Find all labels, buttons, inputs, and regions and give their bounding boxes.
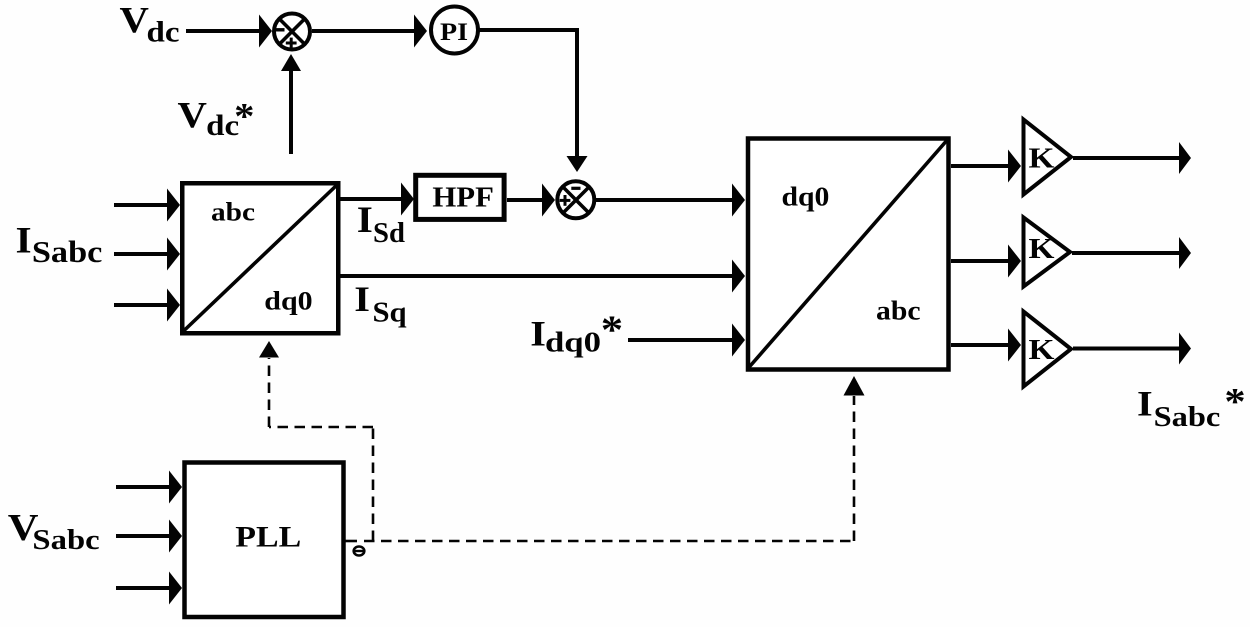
- label dq0 in B2: [782, 182, 830, 211]
- svg-text:V: V: [120, 0, 149, 41]
- transformation block B1 abc to dq0: [182, 183, 339, 333]
- node VSabc label: [8, 506, 100, 555]
- node Vdc* label: [178, 95, 255, 142]
- wire ISabc input c to B1: [114, 289, 180, 322]
- wire theta dashed branch up at x373: [372, 427, 375, 541]
- label dq0 in B1: [264, 287, 312, 316]
- svg-text:V: V: [178, 95, 207, 136]
- wire ISq from B1 to B2 input q: [340, 260, 745, 293]
- filter block HPF: [416, 175, 504, 219]
- wire S2 to B2 input d: [596, 184, 746, 217]
- svg-text:I: I: [357, 200, 373, 241]
- wire ISabc input a to B1: [114, 189, 180, 222]
- wire theta dashed horizontal to B2 branch: [364, 540, 854, 543]
- svg-text:I: I: [354, 280, 370, 320]
- summing junction S2 (PI out - HPF out): [557, 181, 594, 218]
- gain K1: [1024, 120, 1072, 195]
- wire K1 output: [1073, 142, 1191, 174]
- svg-text:dc: dc: [147, 15, 180, 48]
- svg-text:Sabc: Sabc: [1154, 401, 1221, 433]
- wire VSabc input c to PLL: [116, 572, 182, 605]
- wire S1 to PI: [312, 15, 427, 48]
- svg-text:dq0: dq0: [264, 287, 312, 316]
- wire theta dashed horizontal to B1 branch: [269, 426, 373, 429]
- wire ISabc input b to B1: [114, 238, 180, 271]
- summing junction S1 (Vdc - Vdc*): [274, 14, 310, 50]
- svg-text:dq0: dq0: [545, 326, 601, 358]
- svg-text:Sd: Sd: [373, 217, 405, 249]
- wire theta stub from PLL: [345, 540, 357, 543]
- node ISq label: [354, 280, 406, 328]
- svg-text:Sabc: Sabc: [32, 524, 99, 556]
- svg-text:PLL: PLL: [235, 519, 301, 553]
- block PLL: [185, 463, 344, 618]
- wire theta dashed vertical into B1: [259, 341, 279, 427]
- wire K3 output: [1073, 333, 1191, 365]
- svg-text:K: K: [1029, 232, 1056, 264]
- wire B2 output a to gain K1: [951, 150, 1021, 183]
- svg-text:PI: PI: [440, 17, 468, 45]
- svg-text:K: K: [1029, 141, 1056, 173]
- svg-text:I: I: [1137, 384, 1153, 424]
- wire B1 output ISd to HPF: [340, 183, 414, 216]
- svg-text:dq0: dq0: [782, 182, 830, 211]
- node Idq0* label: [530, 308, 623, 358]
- node Vdc label: [120, 0, 180, 48]
- wire VSabc input b to PLL: [116, 520, 182, 553]
- svg-text:*: *: [1224, 380, 1245, 422]
- wire B2 output c to gain K3: [951, 329, 1021, 362]
- node ISabc* label: [1137, 380, 1246, 433]
- wire HPF to S2: [507, 184, 555, 217]
- svg-text:HPF: HPF: [432, 181, 493, 213]
- node ISabc label: [16, 220, 103, 269]
- svg-text:abc: abc: [211, 198, 255, 227]
- wire VSabc input a to PLL: [116, 471, 182, 504]
- wire theta dashed vertical into B2: [844, 376, 865, 541]
- wire B2 output b to gain K2: [951, 245, 1021, 278]
- svg-text:I: I: [16, 220, 32, 261]
- transformation block B2 dq0 to abc: [748, 139, 949, 370]
- label abc in B1: [211, 198, 255, 227]
- node theta output of PLL: [354, 547, 365, 556]
- node ISd label: [357, 200, 405, 249]
- wire Idq0* to B2 input 0: [628, 324, 745, 357]
- svg-text:Sabc: Sabc: [32, 236, 103, 270]
- gain K3: [1024, 312, 1072, 387]
- wire Vdc to summing junction S1: [186, 15, 272, 48]
- svg-text:K: K: [1029, 333, 1056, 365]
- PI controller U1: [431, 7, 478, 54]
- wire K2 output: [1072, 237, 1191, 269]
- svg-text:abc: abc: [876, 297, 921, 326]
- svg-text:*: *: [234, 96, 254, 137]
- svg-text:Sq: Sq: [372, 296, 406, 328]
- wire Vdc* to S1: [281, 54, 301, 154]
- svg-text:*: *: [601, 308, 623, 352]
- wire PI to summing junction S2: [480, 30, 588, 172]
- label abc in B2: [876, 297, 921, 326]
- svg-text:I: I: [530, 315, 546, 355]
- gain K2: [1024, 218, 1071, 287]
